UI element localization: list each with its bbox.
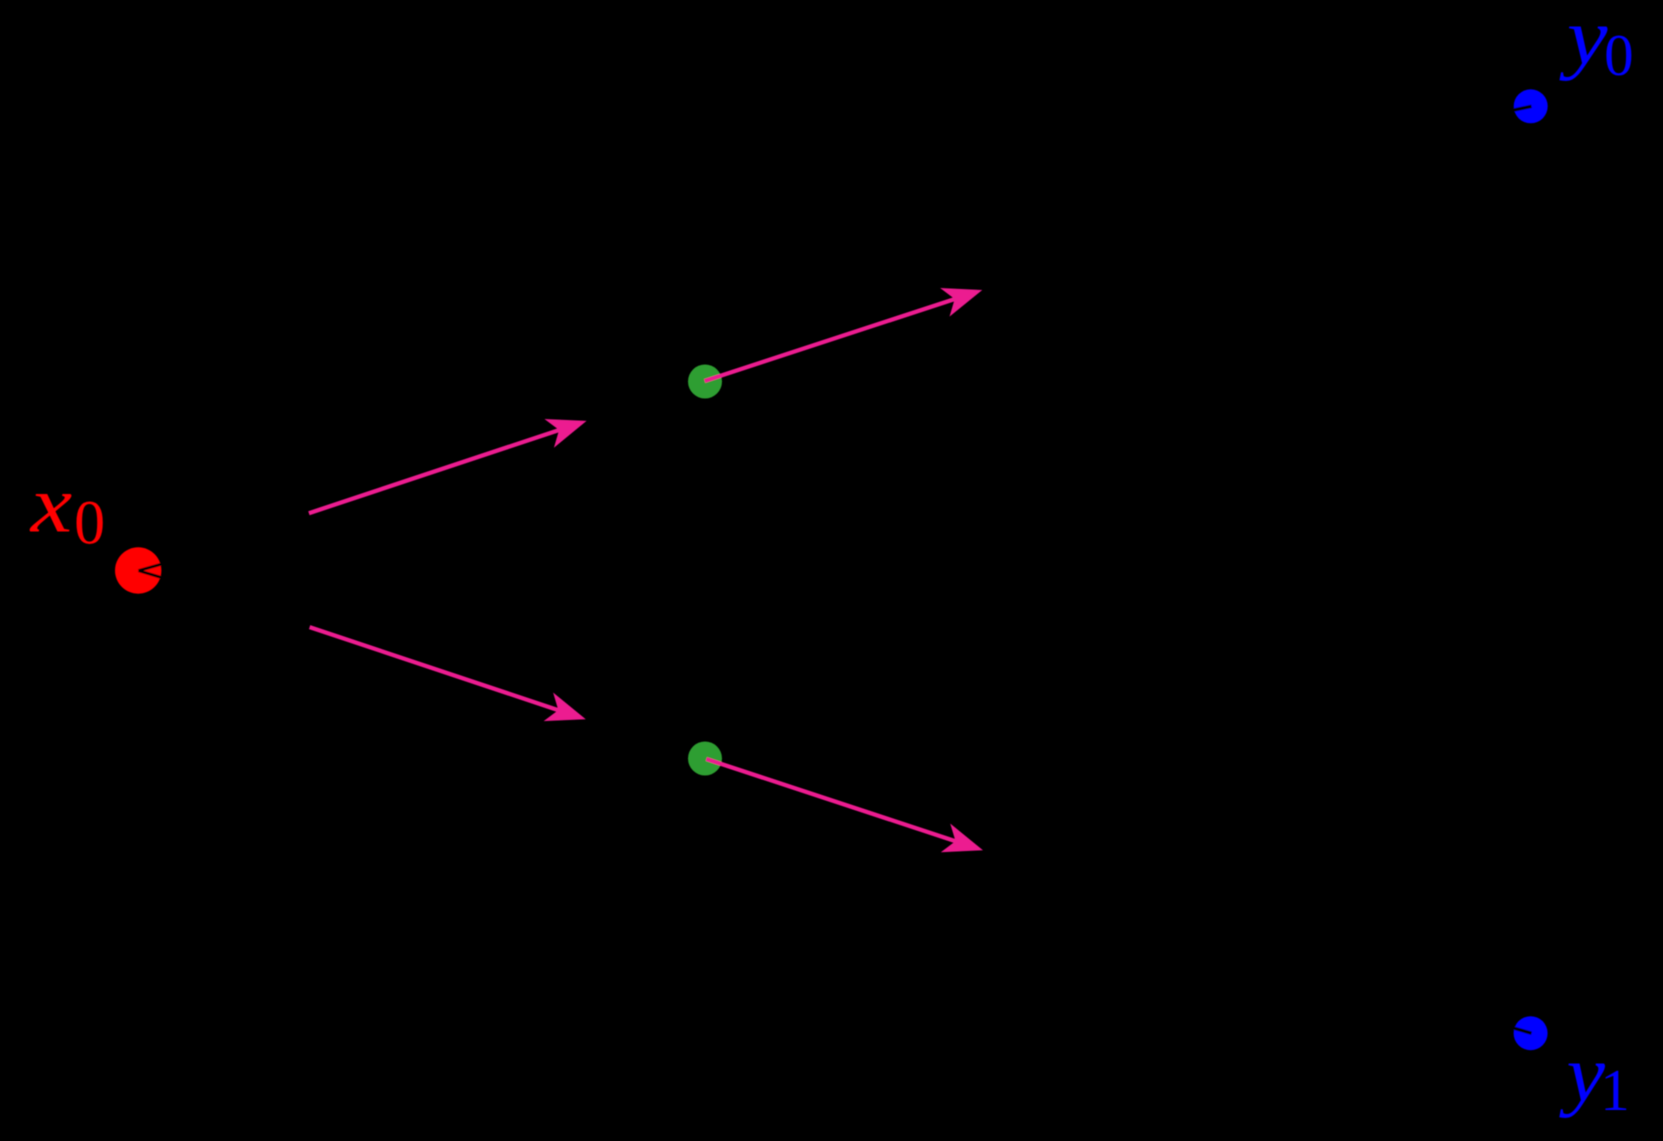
svg-text:0: 0 [74,490,105,558]
svg-text:x: x [30,459,73,550]
node: upper green intermediate sample x_t [688,365,722,399]
node x0 (red source sample) [115,547,166,593]
arrow: velocity vector from x0 toward upper trajectory [309,419,587,513]
arrow: velocity vector from x0 toward lower trajectory [310,627,586,721]
svg-text:y: y [1559,0,1607,82]
label y_0 [1559,0,1633,88]
label y_1 [1559,1029,1630,1123]
label x_0 [30,459,105,558]
node: lower green intermediate sample x_t [688,742,722,776]
node y1 (blue target sample) [1509,1016,1548,1050]
arrow: velocity vector at upper green sample point [705,288,983,381]
svg-text:0: 0 [1604,22,1634,88]
node y0 (blue target sample) [1509,89,1548,123]
arrow: velocity vector at lower green sample point [706,759,983,852]
svg-text:1: 1 [1600,1057,1630,1123]
svg-text:y: y [1559,1029,1605,1119]
